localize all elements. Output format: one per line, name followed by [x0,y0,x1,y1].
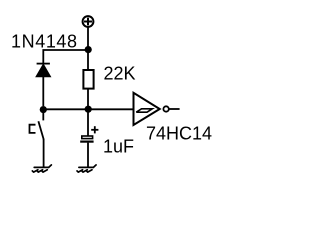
wire bus node C to inverter input [43,108,133,110]
wire node A to resistor top [87,50,89,70]
capacitor C1 1uF polarized [80,126,98,167]
wire node A to diode cathode (horizontal + vertical) [43,50,88,64]
svg-text:22K: 22K [104,64,136,84]
supply + terminal [83,16,94,27]
svg-text:1uF: 1uF [103,137,134,157]
hysteresis symbol [136,109,152,112]
actuator bracket [30,125,36,133]
wire resistor bottom to node B [87,89,89,110]
output bubble [163,106,168,111]
svg-text:1N4148: 1N4148 [11,32,78,52]
ground (switch side) [32,165,51,172]
svg-text:74HC14: 74HC14 [146,124,212,144]
triangle body [134,93,160,125]
ground (capacitor side) [77,165,96,172]
node A junction dot [85,46,92,53]
output wire [169,108,180,110]
bottom plate [80,141,93,143]
pushbutton switch S1 [30,110,44,167]
top plate (outlined) [82,136,93,139]
diode D1 1N4148 [37,64,50,106]
switch lever [38,121,43,139]
wire capacitor to ground [87,143,89,167]
node C junction dot (switch branch) [40,106,47,113]
plus mark [91,129,98,131]
wire switch bottom to ground [43,139,45,167]
resistor 22K [83,70,93,89]
node B junction dot [85,106,92,113]
wire node B to capacitor top [87,109,89,135]
wire dot to switch top stub [42,110,44,121]
inverter U1 74HC14 schmitt trigger [134,93,180,125]
wire supply to node A [87,27,89,50]
